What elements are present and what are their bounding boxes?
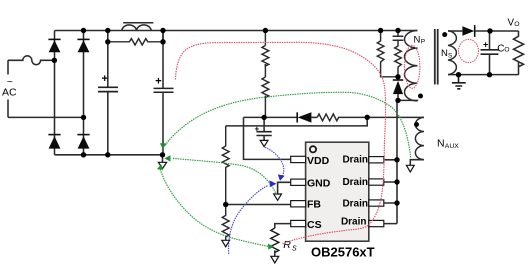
wire bridge right rail	[83, 31, 85, 155]
svg-text:N: N	[414, 34, 421, 45]
svg-text:CS: CS	[307, 219, 322, 231]
inductor L1 filter choke	[122, 23, 154, 31]
svg-text:P: P	[421, 38, 425, 45]
wire bottom bus	[55, 154, 163, 156]
transformer secondary winding Ns	[448, 31, 456, 75]
svg-text:+: +	[483, 39, 488, 49]
svg-text:O: O	[514, 21, 519, 28]
wire Naux bottom to ground	[410, 160, 424, 166]
annotation green ground path (Rs gnd to node)	[160, 170, 268, 247]
resistor R aux	[317, 114, 424, 121]
wire FB to pin	[226, 204, 293, 206]
AC source lines	[7, 60, 9, 117]
label Co	[497, 43, 509, 54]
label Ns	[441, 48, 453, 60]
svg-text:AUX: AUX	[445, 143, 459, 150]
node dot Naux phase	[414, 122, 419, 127]
wire FB top tap	[226, 117, 368, 126]
capacitor Co output	[481, 31, 499, 75]
label Np	[414, 34, 426, 45]
annotation red flux loop (primary)	[405, 45, 420, 88]
svg-text:S: S	[448, 53, 453, 60]
svg-text:N: N	[441, 48, 448, 59]
node dot Np phase	[418, 94, 423, 99]
annotation red loop (secondary)	[459, 39, 479, 62]
annotation green arrowheads at star node	[157, 143, 274, 249]
wire top bus	[55, 30, 418, 32]
annotation green ground path (IC GND to node)	[172, 158, 276, 194]
wire AC bottom	[8, 116, 84, 118]
annotation green ground loop (Naux to node)	[166, 92, 411, 157]
wire VDD to pin	[244, 117, 291, 159]
wire primary bottom to drain bus	[398, 99, 418, 102]
node junction dots	[52, 28, 493, 207]
svg-text:N: N	[437, 138, 445, 150]
svg-text:OB2576xT: OB2576xT	[311, 245, 375, 260]
wire GND pin to ground	[278, 182, 291, 194]
resistor R damping (parallel with L1)	[108, 31, 163, 46]
wire bridge left rail	[54, 31, 56, 155]
pin Drain 1	[342, 154, 383, 165]
diode D aux rectifier	[297, 112, 317, 122]
pin Drain 4	[341, 216, 384, 227]
resistor R startup lower	[262, 64, 269, 117]
diode D2 bridge top-right	[77, 39, 89, 52]
resistor R snubber	[377, 31, 398, 77]
transformer primary winding Np	[404, 31, 417, 101]
transformer aux winding Naux	[415, 117, 424, 159]
resistor R fb lower	[222, 205, 229, 241]
ground (primary return node)	[158, 155, 166, 169]
svg-text:Drain: Drain	[342, 198, 368, 209]
fuse F1 in AC top wire	[8, 56, 54, 65]
svg-text:GND: GND	[307, 177, 331, 189]
transformer core	[435, 29, 438, 85]
ground (Rs)	[271, 256, 279, 263]
label Vo	[508, 17, 520, 28]
wire CS to Rs	[275, 224, 293, 228]
wire secondary bottom	[448, 74, 519, 76]
wire Ns top to diode	[448, 30, 462, 32]
svg-text:Drain: Drain	[342, 177, 368, 188]
pin VDD	[291, 155, 330, 167]
capacitor C2 bulk (electrolytic)	[154, 31, 174, 155]
op IC U1 OB2576xT body	[306, 142, 369, 241]
wire drain bus	[384, 100, 397, 223]
pin CS	[291, 219, 322, 231]
pin FB	[291, 199, 322, 211]
pin GND	[291, 177, 331, 189]
annotation blue path (FB gnd to GND pin)	[229, 186, 268, 254]
capacitor C snubber + series R	[393, 31, 404, 77]
diode D clamp	[393, 80, 403, 100]
annotation blue arrowheads	[270, 174, 285, 187]
diode D4 bridge bottom-right	[77, 135, 89, 149]
resistor R load	[514, 31, 524, 75]
ground (Naux)	[406, 165, 414, 172]
svg-text:Drain: Drain	[342, 154, 368, 165]
pin Drain 3	[342, 198, 383, 209]
wire VDD supply rail	[244, 116, 297, 118]
svg-text:VDD: VDD	[307, 155, 330, 167]
resistor R startup upper	[262, 31, 269, 67]
svg-text:+: +	[155, 75, 161, 87]
ground (C vdd)	[260, 140, 268, 146]
label AC source	[2, 76, 17, 99]
earth ground (secondary)	[452, 75, 466, 89]
resistor Rs current sense	[271, 228, 279, 256]
svg-text:O: O	[504, 47, 509, 54]
capacitor C vdd (electrolytic)	[255, 117, 272, 140]
annotation red primary current loop	[176, 42, 386, 243]
svg-text:S: S	[292, 246, 297, 253]
ground (GND pin)	[274, 194, 282, 200]
resistor R fb upper	[222, 126, 229, 205]
ground (FB divider)	[222, 240, 230, 247]
diode D1 bridge top-left	[48, 39, 60, 52]
svg-text:+: +	[102, 73, 108, 85]
annotation blue path (Cvdd gnd to GND pin)	[266, 148, 284, 177]
node dot Ns phase	[442, 32, 447, 37]
diode D3 bridge bottom-left	[48, 135, 60, 149]
label Naux	[437, 138, 459, 151]
capacitor C1 bulk (electrolytic)	[98, 31, 118, 155]
svg-text:AC: AC	[2, 87, 17, 99]
svg-text:Drain: Drain	[341, 216, 367, 227]
svg-text:FB: FB	[307, 199, 321, 211]
diode D output rectifier	[462, 25, 518, 37]
pin Drain 2	[342, 177, 383, 188]
